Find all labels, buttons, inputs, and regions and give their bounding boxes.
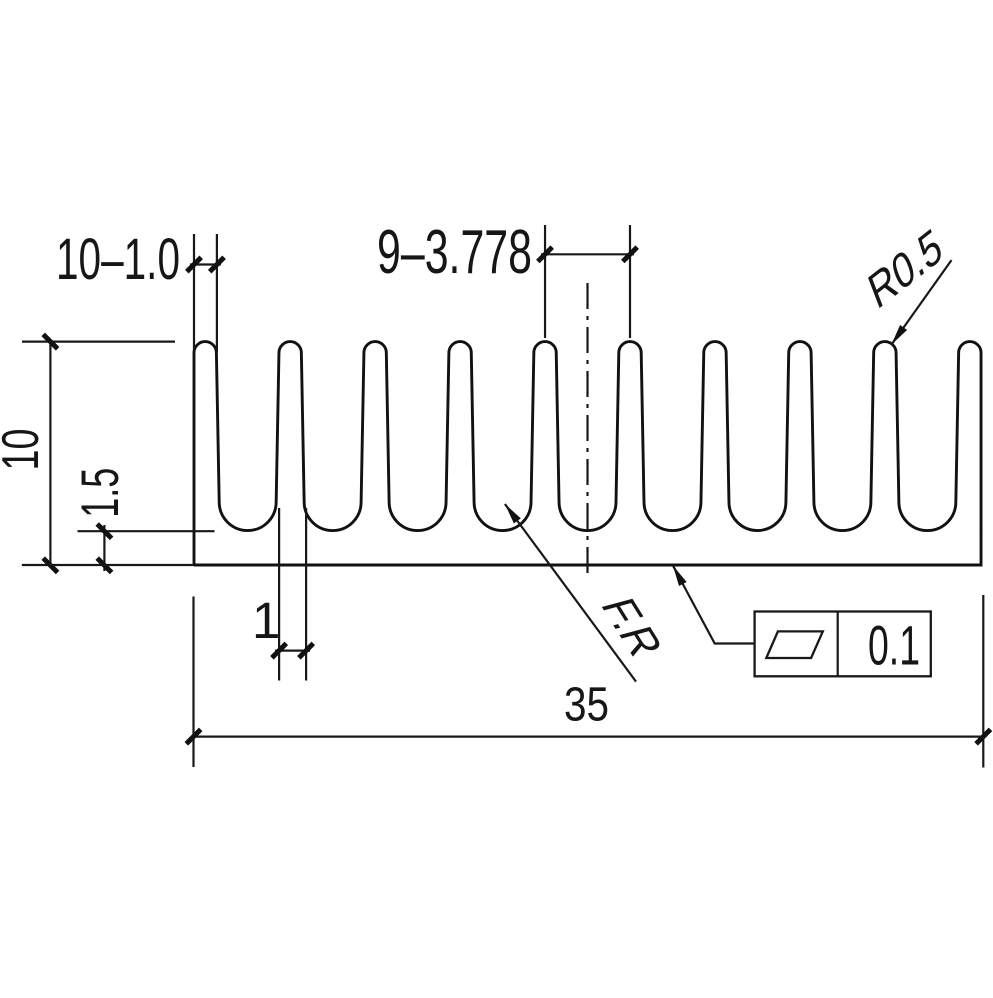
dimension 10 overall height: top extension line xyxy=(22,341,175,343)
dimension 10 vertical dimension line with oblique ticks xyxy=(43,334,57,572)
dimension 9-3.778 dimension line with oblique ticks xyxy=(538,247,637,261)
dimension text 1.5 (rotated) xyxy=(71,468,130,518)
dimension text 10 (rotated) xyxy=(0,429,50,471)
leader line F.R full radius pointing at valley between fin 4 and fin 5 xyxy=(505,504,636,682)
text F.R (rotated along leader) xyxy=(590,593,674,661)
dimension 35 overall width: extension lines xyxy=(194,595,984,768)
dimension 1.5 base thickness: extension line at valley bottom level xyxy=(78,530,215,532)
heatsink extrusion profile outline (10 fins, base) xyxy=(194,342,981,565)
dimension 9-3.778 fin pitch: extension lines at fin 5 and fin 6 centers xyxy=(545,225,630,338)
svg-text:0.1: 0.1 xyxy=(868,614,920,677)
svg-text:35: 35 xyxy=(564,679,609,732)
tolerance value text 0.1 xyxy=(868,614,920,677)
dimension text R0.5 (rotated) xyxy=(862,217,949,320)
dimension text 10-1.0 xyxy=(56,227,180,292)
dimension 35 dimension line with oblique ticks xyxy=(186,729,990,743)
svg-text:10–1.0: 10–1.0 xyxy=(56,227,180,292)
flatness tolerance leader arrow to base bottom surface xyxy=(673,566,755,644)
svg-text:10: 10 xyxy=(0,429,50,471)
dimension 1 fin thickness: extension lines from fin 2 sides xyxy=(279,508,306,681)
dimension 10-1.0 dimension line with oblique ticks xyxy=(187,257,224,271)
svg-text:9–3.778: 9–3.778 xyxy=(377,218,532,287)
svg-text:1.5: 1.5 xyxy=(71,468,130,518)
leader line R0.5 pointing at fin 9 tip radius xyxy=(891,260,951,345)
dimension text 35 xyxy=(564,679,609,732)
dimension text 9-3.778 xyxy=(377,218,532,287)
dimension 1 dimension line with oblique ticks xyxy=(272,643,313,657)
svg-text:1: 1 xyxy=(252,592,280,649)
dimension 10-1.0 fin thickness: extension lines over fin 1 xyxy=(194,234,217,352)
flatness symbol (parallelogram) xyxy=(766,631,823,658)
extension of base bottom line to left for 10 and 1.5 dimensions xyxy=(22,564,194,566)
flatness feature control frame box xyxy=(755,612,931,677)
dimension 1.5 vertical dimension line with oblique ticks xyxy=(97,524,111,573)
centerline between fin 5 and fin 6 xyxy=(586,283,588,579)
dimension text 1 xyxy=(252,592,280,649)
